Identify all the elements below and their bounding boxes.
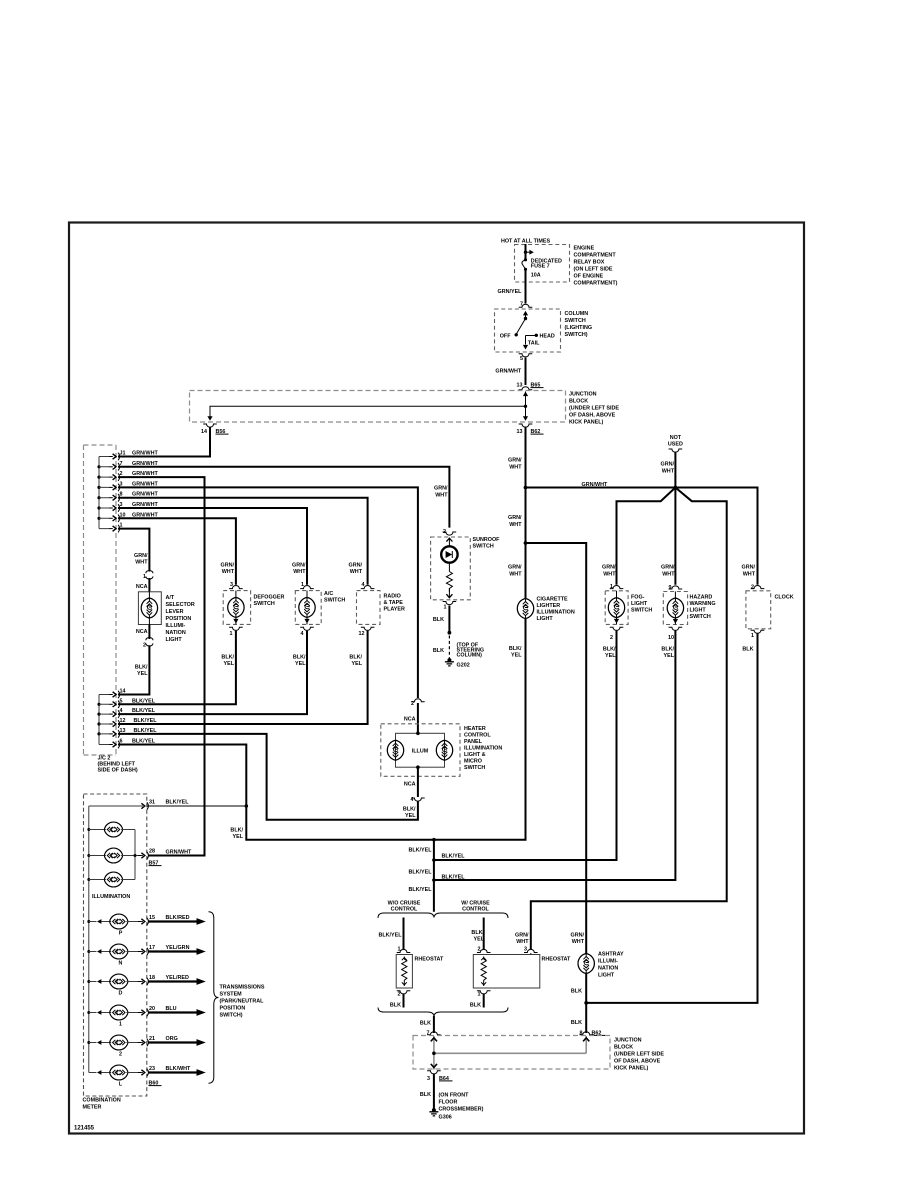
svg-text:ILLUMI-: ILLUMI- — [166, 623, 186, 629]
svg-text:JUNCTION: JUNCTION — [569, 392, 597, 398]
lamp gear N — [89, 944, 143, 966]
wire meter bus left — [89, 806, 143, 1073]
rheostat w/o cruise — [396, 955, 444, 989]
svg-text:BLK: BLK — [420, 1021, 431, 1027]
pin 1 A/T light — [146, 571, 153, 580]
svg-text:COLUMN: COLUMN — [565, 311, 589, 317]
heater control panel illumination light & micro switch — [381, 724, 503, 777]
svg-text:GRN/: GRN/ — [508, 565, 522, 571]
svg-text:BLK/: BLK/ — [471, 930, 484, 936]
svg-text:DEFOGGER: DEFOGGER — [254, 595, 285, 601]
svg-text:CONTROL: CONTROL — [464, 733, 491, 739]
lamp cigarette lighter illumination light — [517, 597, 575, 623]
pin labels 14 5 4 12 13 6 with BLK/YEL — [120, 689, 158, 745]
svg-text:G202: G202 — [457, 663, 470, 669]
brace transmission system — [209, 912, 219, 1083]
rheostat w/ cruise — [473, 955, 571, 989]
svg-text:POSITION: POSITION — [220, 1006, 246, 1012]
svg-text:SWITCH: SWITCH — [464, 765, 485, 771]
svg-text:OF DASH, ABOVE: OF DASH, ABOVE — [569, 413, 616, 419]
svg-text:WHT: WHT — [293, 569, 306, 575]
svg-text:CLOCK: CLOCK — [775, 595, 794, 601]
svg-text:BLK/: BLK/ — [509, 646, 522, 652]
svg-text:OF DASH, ABOVE: OF DASH, ABOVE — [614, 1059, 661, 1065]
lamp gear P — [89, 914, 143, 936]
svg-text:CONTROL: CONTROL — [462, 907, 489, 913]
engine compartment relay box (dashed) — [515, 245, 570, 283]
defogger switch (dashed box with lamp) — [223, 591, 284, 625]
bottom bank pins — [109, 691, 119, 699]
lamp gear D — [89, 974, 143, 996]
svg-text:BLK: BLK — [571, 1020, 582, 1026]
svg-text:BLK: BLK — [470, 1003, 481, 1009]
svg-text:ILLUMINATION: ILLUMINATION — [537, 610, 575, 616]
wire branch to B56 — [210, 406, 526, 419]
svg-text:13: 13 — [517, 383, 523, 389]
svg-text:(ON LEFT SIDE: (ON LEFT SIDE — [574, 267, 613, 273]
svg-text:COMBINATION: COMBINATION — [83, 1098, 121, 1104]
svg-text:GRN/: GRN/ — [508, 458, 522, 464]
svg-text:& TAPE: & TAPE — [384, 600, 404, 606]
svg-text:GRN/: GRN/ — [508, 515, 522, 521]
svg-text:2: 2 — [143, 642, 146, 648]
svg-text:BLK/: BLK/ — [403, 807, 416, 813]
svg-text:BLK: BLK — [571, 989, 582, 995]
svg-text:GRN/: GRN/ — [292, 563, 306, 569]
wire to transmission L — [148, 1071, 197, 1073]
svg-text:(ON FRONT: (ON FRONT — [439, 1093, 470, 1099]
svg-text:BLK: BLK — [742, 647, 753, 653]
pin 23 BLK/WHT — [138, 1069, 148, 1077]
pin 31 BLK/YEL — [138, 802, 148, 810]
svg-text:SWITCH: SWITCH — [254, 601, 275, 607]
connector B64 pin 3 — [427, 1071, 441, 1074]
svg-text:FUSE 7: FUSE 7 — [531, 264, 550, 270]
svg-text:21: 21 — [149, 1036, 155, 1042]
svg-text:YEL: YEL — [137, 671, 148, 677]
svg-text:CROSSMEMBER): CROSSMEMBER) — [439, 1107, 484, 1113]
combination meter box (dashed) — [84, 794, 147, 1096]
svg-text:LIGHT: LIGHT — [598, 973, 615, 979]
svg-text:MICRO: MICRO — [464, 759, 482, 765]
svg-text:2: 2 — [610, 635, 613, 641]
svg-text:A/C: A/C — [324, 591, 333, 597]
svg-text:SELECTOR: SELECTOR — [166, 602, 195, 608]
svg-text:GRN/: GRN/ — [434, 486, 448, 492]
svg-text:LEVER: LEVER — [166, 609, 184, 615]
svg-text:(LIGHTING: (LIGHTING — [565, 325, 593, 331]
svg-text:HAZARD: HAZARD — [690, 595, 713, 601]
pin 5 — [519, 354, 533, 357]
svg-text:BLK/YEL: BLK/YEL — [378, 933, 402, 939]
wire meter bus right — [135, 830, 143, 880]
wire row 2 to combination meter pin 28 — [118, 477, 205, 855]
svg-text:GRN/: GRN/ — [742, 565, 756, 571]
svg-text:GRN/: GRN/ — [134, 553, 148, 559]
svg-text:RHEOSTAT: RHEOSTAT — [542, 957, 572, 963]
wire from HOT AT ALL TIMES down through fuse box — [525, 244, 527, 259]
wire chain to fog — [434, 631, 617, 860]
svg-text:WHT: WHT — [509, 522, 522, 528]
wire rheostat2 pin2 — [483, 918, 485, 950]
pin 4 A/C switch — [300, 627, 314, 630]
svg-text:SWITCH: SWITCH — [690, 614, 711, 620]
svg-text:SWITCH): SWITCH) — [220, 1013, 243, 1019]
svg-text:HOT AT ALL TIMES: HOT AT ALL TIMES — [501, 239, 551, 245]
svg-text:YEL: YEL — [295, 661, 306, 667]
svg-text:RHEOSTAT: RHEOSTAT — [415, 957, 445, 963]
svg-text:RADIO: RADIO — [384, 594, 401, 600]
svg-text:18: 18 — [149, 975, 155, 981]
pin 1 defogger — [229, 627, 243, 630]
pin 1 rheostat2 — [477, 991, 491, 994]
svg-text:YEL/RED: YEL/RED — [166, 975, 189, 981]
radio s tape player (dashed box) — [357, 591, 405, 625]
pin 20 BLU — [138, 1009, 148, 1017]
svg-text:1: 1 — [230, 631, 233, 637]
svg-text:METER: METER — [83, 1105, 102, 1111]
svg-text:BLOCK: BLOCK — [569, 399, 588, 405]
svg-text:NCA: NCA — [136, 629, 148, 635]
svg-text:1: 1 — [143, 574, 146, 580]
svg-text:WHT: WHT — [135, 560, 148, 566]
svg-text:BLK/YEL: BLK/YEL — [442, 875, 466, 881]
wire GRN/WHT distribution bus — [526, 488, 758, 585]
wire A/C return to row 4 — [118, 631, 307, 714]
svg-text:BLK: BLK — [433, 648, 444, 654]
svg-text:WHT: WHT — [435, 493, 448, 499]
wire row 8 to radio — [118, 498, 368, 585]
svg-text:LIGHT: LIGHT — [631, 601, 648, 607]
svg-text:HEAD: HEAD — [540, 333, 555, 339]
node GRN/WHT junction 2 (ashtray branch) — [524, 541, 528, 545]
pin 4 heater — [417, 767, 419, 797]
svg-text:BLK/YEL: BLK/YEL — [408, 870, 432, 876]
wire row 3 to heater control panel — [118, 487, 418, 698]
svg-text:USED: USED — [668, 442, 683, 448]
svg-text:D: D — [119, 991, 123, 997]
svg-text:BLK/: BLK/ — [349, 655, 362, 661]
svg-text:5: 5 — [520, 356, 523, 362]
connector B56 pin 14 — [203, 424, 217, 427]
svg-text:1: 1 — [119, 1022, 122, 1028]
wire row 1 to A/T selector light — [118, 529, 149, 572]
node bus junction — [524, 251, 527, 254]
svg-text:WHT: WHT — [509, 465, 522, 471]
svg-text:GRN/: GRN/ — [661, 565, 675, 571]
pin 12 radio — [361, 627, 375, 630]
wire BLK to ground — [433, 1074, 435, 1109]
lamp gear 1 — [89, 1005, 143, 1027]
svg-text:2: 2 — [398, 991, 401, 997]
node chain junction 3 — [432, 878, 436, 882]
svg-text:YEL: YEL — [352, 661, 363, 667]
svg-text:LIGHT: LIGHT — [537, 616, 554, 622]
wire BLK clock to ashtray junction — [586, 634, 757, 1003]
sunroof switch (dashed box) — [431, 537, 501, 600]
svg-text:YEL: YEL — [474, 937, 485, 943]
wire row 13 to heater panel return — [118, 734, 418, 820]
pin 1 sunroof — [443, 602, 457, 605]
bottom bank bus — [98, 695, 100, 745]
svg-text:BLK/WHT: BLK/WHT — [166, 1066, 192, 1072]
svg-text:LIGHTER: LIGHTER — [537, 603, 561, 609]
svg-text:YEL: YEL — [405, 813, 416, 819]
svg-text:BLK/YEL: BLK/YEL — [408, 887, 432, 893]
wire B56 down to row J1 — [118, 427, 210, 457]
node ashtray junction — [584, 1001, 588, 1005]
wire GRN/WHT not-used down to hazard — [674, 453, 676, 585]
svg-text:WHT: WHT — [509, 572, 522, 578]
fog light switch (dashed box with lamp) — [605, 591, 652, 625]
node chain junction 1 — [432, 838, 436, 842]
svg-text:YEL/GRN: YEL/GRN — [166, 945, 190, 951]
svg-text:SWITCH: SWITCH — [473, 544, 494, 550]
svg-text:SUNROOF: SUNROOF — [473, 537, 501, 543]
svg-text:ORG: ORG — [166, 1036, 178, 1042]
wire GRN/WHT to B65 — [525, 358, 527, 386]
svg-text:WHT: WHT — [222, 569, 235, 575]
node splice — [448, 631, 452, 635]
wire radio return to row 12 — [118, 631, 368, 724]
wire row 3b to A/C switch — [118, 508, 307, 585]
svg-text:HEATER: HEATER — [464, 726, 486, 732]
svg-text:NATION: NATION — [166, 630, 186, 636]
svg-text:ASHTRAY: ASHTRAY — [598, 952, 624, 958]
svg-text:GRN/: GRN/ — [661, 462, 675, 468]
wire BLK ashtray down — [585, 973, 587, 1033]
fuse DEDICATED FUSE 7 10A — [522, 258, 562, 278]
top bank pins — [109, 453, 119, 461]
svg-text:12: 12 — [359, 631, 365, 637]
svg-text:NOT: NOT — [670, 435, 682, 441]
junction block box (dashed) — [190, 391, 566, 423]
top bank row stubs + arrows — [99, 457, 110, 529]
svg-text:SYSTEM: SYSTEM — [220, 992, 243, 998]
svg-text:1: 1 — [478, 991, 481, 997]
svg-text:TAIL: TAIL — [528, 340, 540, 346]
wire inside junction block — [434, 1036, 586, 1070]
svg-text:BLK: BLK — [390, 1003, 401, 1009]
svg-text:WHT: WHT — [572, 939, 585, 945]
wire GRN/WHT to ashtray — [526, 543, 587, 954]
connector B62 pin 13 — [519, 424, 533, 427]
svg-text:9: 9 — [669, 585, 672, 591]
svg-text:YEL: YEL — [605, 653, 616, 659]
J/C 2 box (dashed) — [84, 445, 117, 755]
node GRN/WHT junction 1 — [524, 486, 528, 490]
svg-text:GRN/WHT: GRN/WHT — [166, 850, 192, 856]
svg-text:LIGHT: LIGHT — [166, 637, 183, 643]
svg-text:GRN/: GRN/ — [349, 563, 363, 569]
wire GRN/WHT B62 trunk — [525, 427, 527, 598]
svg-text:BLU: BLU — [166, 1006, 177, 1012]
svg-text:BLK/YEL: BLK/YEL — [442, 854, 466, 860]
svg-text:POSITION: POSITION — [166, 616, 192, 622]
svg-text:BLK/: BLK/ — [135, 665, 148, 671]
wire defogger return to row 5 — [118, 631, 236, 705]
lamp illumination 3 — [89, 872, 135, 887]
svg-text:BLK/YEL: BLK/YEL — [408, 848, 432, 854]
node junction block node — [432, 1052, 436, 1056]
svg-text:2: 2 — [119, 1052, 122, 1058]
svg-text:YEL: YEL — [224, 661, 235, 667]
svg-text:3: 3 — [427, 1076, 430, 1082]
svg-text:WHT: WHT — [516, 939, 529, 945]
node distribution junction — [674, 486, 678, 490]
pin 15 BLK/RED — [138, 918, 148, 926]
lamp gear L — [89, 1065, 143, 1087]
svg-text:GRN/WHT: GRN/WHT — [495, 369, 521, 375]
svg-text:BLK/: BLK/ — [293, 655, 306, 661]
pin 28 GRN/WHT — [138, 852, 148, 860]
lamp illumination 2 — [89, 848, 135, 863]
svg-text:BLOCK: BLOCK — [614, 1045, 633, 1051]
svg-text:SWITCH: SWITCH — [324, 598, 345, 604]
svg-text:BLK/YEL: BLK/YEL — [166, 800, 190, 806]
lamp ashtray illumination light — [578, 952, 624, 979]
svg-text:121455: 121455 — [74, 1126, 95, 1132]
lamp A/T selector lever position illumination light — [138, 578, 194, 643]
svg-text:BLK/: BLK/ — [661, 647, 674, 653]
svg-text:31: 31 — [149, 800, 155, 806]
wire BLK sunroof to splice — [448, 606, 450, 633]
svg-text:LIGHT &: LIGHT & — [464, 752, 486, 758]
svg-text:LIGHT: LIGHT — [690, 608, 707, 614]
svg-text:14: 14 — [201, 429, 207, 435]
svg-text:P: P — [119, 931, 123, 937]
svg-text:YEL: YEL — [233, 834, 244, 840]
svg-text:PANEL: PANEL — [464, 739, 483, 745]
lamp illumination 1 — [89, 822, 135, 837]
wire to transmission P — [148, 920, 197, 922]
svg-text:SIDE OF DASH): SIDE OF DASH) — [98, 768, 138, 774]
svg-text:WHT: WHT — [743, 572, 756, 578]
svg-text:FLOOR: FLOOR — [439, 1100, 458, 1106]
svg-text:GRN/: GRN/ — [571, 933, 585, 939]
svg-text:28: 28 — [149, 849, 155, 855]
wire BLK to junction block pin 7 — [433, 1016, 435, 1033]
svg-text:NCA: NCA — [404, 782, 416, 788]
svg-text:KICK PANEL): KICK PANEL) — [569, 420, 604, 426]
svg-text:NCA: NCA — [136, 584, 148, 590]
svg-text:2: 2 — [751, 585, 754, 591]
svg-text:CONTROL: CONTROL — [391, 907, 418, 913]
pin 2 rheostat1 — [397, 991, 411, 994]
page border frame — [69, 223, 804, 1134]
wire V-branch to rheostat GRN/WHT — [531, 488, 727, 950]
svg-text:1: 1 — [751, 633, 754, 639]
node junction in block — [524, 405, 527, 408]
svg-text:1: 1 — [444, 605, 447, 611]
wire pin31 to trunk — [147, 805, 247, 807]
switch lighting: wiper OFF/HEAD/TAIL — [500, 311, 555, 350]
svg-text:4: 4 — [301, 631, 304, 637]
pin 18 YEL/RED — [138, 978, 148, 986]
svg-text:10: 10 — [668, 635, 674, 641]
svg-text:3: 3 — [524, 947, 527, 953]
svg-text:PLAYER: PLAYER — [384, 607, 405, 613]
brace alternatives top — [378, 913, 508, 918]
ground G306 on front floor crossmember — [429, 1108, 438, 1116]
wire chain to hazard — [434, 631, 676, 880]
wire A/T light return to row 14 — [118, 645, 149, 694]
svg-text:YEL: YEL — [511, 653, 522, 659]
svg-text:13: 13 — [517, 429, 523, 435]
wire to transmission D — [148, 980, 197, 982]
wire row 6 BLK/YEL trunk down — [118, 618, 526, 839]
svg-text:TRANSMISSIONS: TRANSMISSIONS — [220, 985, 265, 991]
ground G202 top of steering column — [445, 658, 454, 666]
svg-text:SWITCH: SWITCH — [631, 608, 652, 614]
svg-text:FOG-: FOG- — [631, 595, 645, 601]
svg-text:SWITCH): SWITCH) — [565, 332, 588, 338]
A/C switch (dashed box with lamp) — [295, 591, 345, 625]
svg-text:RELAY BOX: RELAY BOX — [574, 260, 605, 266]
lamp gear 2 — [89, 1035, 143, 1057]
svg-text:WHT: WHT — [662, 572, 675, 578]
wire BLK dashed to ground — [448, 636, 450, 659]
svg-text:COMPARTMENT): COMPARTMENT) — [574, 281, 618, 287]
svg-text:WARNING: WARNING — [690, 601, 716, 607]
wire to transmission 1 — [148, 1011, 197, 1013]
svg-text:ILLUMINATION: ILLUMINATION — [92, 894, 130, 900]
svg-text:ENGINE: ENGINE — [574, 246, 595, 252]
svg-text:COLUMN): COLUMN) — [457, 653, 483, 659]
svg-text:GRN/: GRN/ — [515, 933, 529, 939]
svg-text:23: 23 — [149, 1066, 155, 1072]
top bank bus — [98, 457, 100, 529]
svg-text:L: L — [119, 1082, 123, 1088]
svg-text:COMPARTMENT: COMPARTMENT — [574, 253, 617, 259]
brace alternatives bottom — [378, 1008, 508, 1017]
pin 21 ORG — [138, 1039, 148, 1047]
svg-text:BLK: BLK — [420, 1092, 431, 1098]
column switch box (dashed) — [495, 309, 561, 352]
svg-text:(UNDER LEFT SIDE: (UNDER LEFT SIDE — [569, 406, 619, 412]
svg-text:15: 15 — [149, 915, 155, 921]
svg-text:WHT: WHT — [350, 569, 363, 575]
wire chain vertical — [433, 840, 435, 912]
svg-text:GRN/YEL: GRN/YEL — [498, 289, 523, 295]
svg-text:10A: 10A — [531, 272, 541, 278]
svg-text:SWITCH: SWITCH — [565, 318, 586, 324]
wire row 7 to sunroof switch — [118, 467, 449, 528]
junction block box (dashed) — [413, 1036, 610, 1070]
svg-text:20: 20 — [149, 1006, 155, 1012]
svg-text:17: 17 — [149, 945, 155, 951]
svg-text:N: N — [119, 961, 123, 967]
svg-text:JUNCTION: JUNCTION — [614, 1038, 642, 1044]
svg-text:GRN/WHT: GRN/WHT — [582, 482, 608, 488]
svg-text:OF ENGINE: OF ENGINE — [574, 274, 604, 280]
svg-text:YEL: YEL — [664, 653, 675, 659]
pin 17 YEL/GRN — [138, 948, 148, 956]
bottom bank row stubs + arrows — [99, 695, 110, 745]
svg-text:BLK/: BLK/ — [230, 828, 243, 834]
wire row 10 to defogger — [118, 518, 236, 585]
wire bus stub arrow — [526, 251, 531, 253]
pin labels J1 7 2 3 8 3 10 1 with GRN/WHT — [120, 451, 159, 529]
wire V-branch to fog light switch — [617, 488, 676, 585]
hazard warning light switch (dashed box with lamp) — [663, 592, 715, 625]
node pin31 junction — [245, 804, 249, 808]
svg-text:ILLUMINATION: ILLUMINATION — [464, 746, 502, 752]
node chain junction 2 — [432, 858, 436, 862]
svg-text:GRN/: GRN/ — [221, 563, 235, 569]
svg-text:ILLUM: ILLUM — [412, 749, 429, 755]
svg-text:OFF: OFF — [500, 334, 511, 340]
